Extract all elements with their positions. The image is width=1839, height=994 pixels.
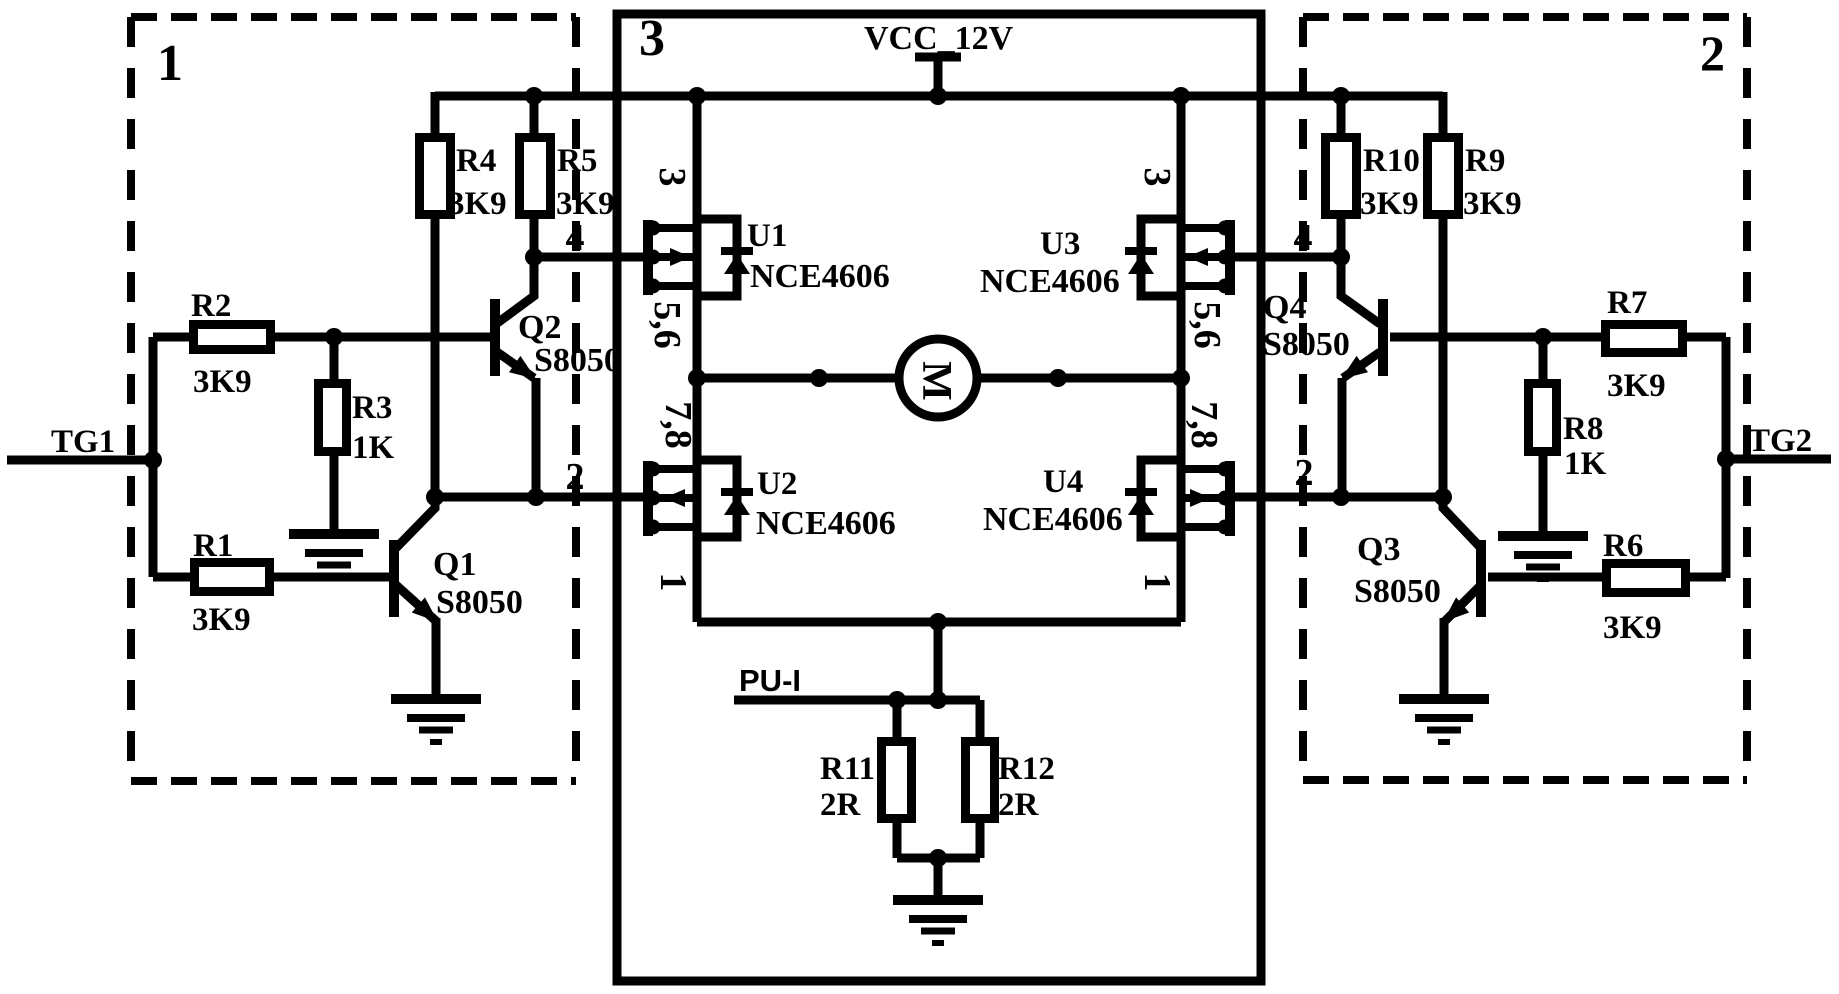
svg-text:NCE4606: NCE4606 — [983, 501, 1123, 538]
svg-text:R1: R1 — [193, 528, 233, 564]
svg-text:2: 2 — [1295, 452, 1314, 494]
svg-text:R2: R2 — [191, 288, 231, 324]
svg-text:S8050: S8050 — [1263, 326, 1350, 363]
svg-text:2: 2 — [566, 456, 585, 498]
svg-text:NCE4606: NCE4606 — [980, 263, 1120, 300]
svg-text:R8: R8 — [1563, 411, 1603, 447]
svg-text:R5: R5 — [557, 143, 597, 179]
svg-text:S8050: S8050 — [534, 342, 621, 379]
svg-text:2: 2 — [1700, 25, 1725, 81]
svg-text:R12: R12 — [998, 751, 1055, 787]
svg-text:S8050: S8050 — [1354, 573, 1441, 610]
svg-text:R11: R11 — [820, 751, 875, 787]
svg-text:3K9: 3K9 — [1463, 186, 1522, 222]
svg-text:NCE4606: NCE4606 — [756, 505, 896, 542]
svg-text:R6: R6 — [1603, 528, 1643, 564]
svg-text:3K9: 3K9 — [1603, 610, 1662, 646]
svg-text:Q1: Q1 — [433, 546, 476, 583]
svg-text:U4: U4 — [1043, 464, 1083, 500]
svg-text:U1: U1 — [747, 218, 787, 254]
svg-text:3: 3 — [639, 10, 665, 67]
svg-text:NCE4606: NCE4606 — [750, 258, 890, 295]
svg-text:PU-I: PU-I — [739, 663, 801, 698]
svg-text:Q4: Q4 — [1263, 289, 1306, 326]
svg-text:1: 1 — [652, 573, 694, 592]
svg-text:1: 1 — [157, 35, 183, 92]
svg-text:4: 4 — [1294, 217, 1313, 259]
svg-text:4: 4 — [566, 217, 585, 259]
svg-text:3K9: 3K9 — [1607, 368, 1666, 404]
svg-text:3: 3 — [651, 168, 693, 187]
svg-text:M: M — [913, 361, 959, 401]
svg-text:7,8: 7,8 — [1183, 401, 1225, 449]
svg-text:3K9: 3K9 — [192, 602, 251, 638]
svg-text:R10: R10 — [1363, 143, 1420, 179]
svg-text:R9: R9 — [1465, 143, 1505, 179]
svg-text:U2: U2 — [757, 466, 797, 502]
svg-text:3K9: 3K9 — [1360, 186, 1419, 222]
svg-text:5,6: 5,6 — [646, 301, 688, 349]
svg-text:S8050: S8050 — [436, 584, 523, 621]
svg-text:R3: R3 — [352, 390, 392, 426]
svg-text:R7: R7 — [1607, 285, 1647, 321]
svg-text:2R: 2R — [998, 787, 1040, 823]
svg-text:3K9: 3K9 — [193, 364, 252, 400]
svg-text:1: 1 — [1136, 573, 1178, 592]
svg-text:TG1: TG1 — [51, 424, 115, 460]
svg-text:1K: 1K — [1564, 446, 1607, 482]
svg-text:3: 3 — [1136, 168, 1178, 187]
svg-text:TG2: TG2 — [1748, 423, 1812, 459]
svg-text:1K: 1K — [352, 430, 395, 466]
svg-text:VCC_12V: VCC_12V — [864, 20, 1014, 57]
svg-text:R4: R4 — [456, 143, 496, 179]
svg-text:U3: U3 — [1040, 226, 1080, 262]
svg-text:7,8: 7,8 — [657, 401, 699, 449]
svg-text:5,6: 5,6 — [1186, 301, 1228, 349]
svg-text:2R: 2R — [820, 787, 862, 823]
svg-text:3K9: 3K9 — [448, 186, 507, 222]
svg-text:Q2: Q2 — [518, 309, 561, 346]
svg-text:Q3: Q3 — [1357, 531, 1400, 568]
